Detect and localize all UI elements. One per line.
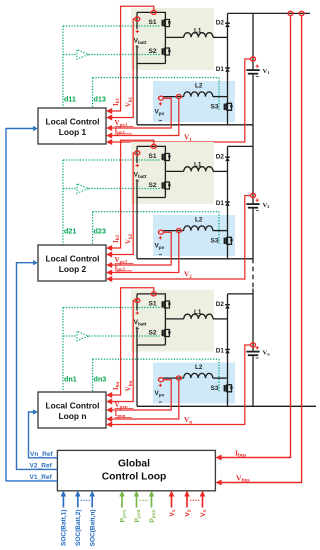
label Global Control Loop	[102, 458, 167, 482]
diode rail top wire (module 2)	[227, 146, 229, 157]
local control loop 1 box	[38, 108, 106, 144]
svg-text:d23: d23	[94, 227, 106, 236]
wire Vn_Ref (blue)	[29, 412, 58, 458]
transistor S2 (module 1)	[162, 44, 171, 60]
PV - mark	[159, 120, 162, 122]
ellipsis dots between SOC inputs	[81, 499, 91, 501]
capacitor + mark	[256, 346, 259, 349]
transistor S3 (module n)	[224, 380, 233, 396]
wire Vpvn sense (red)	[110, 380, 172, 410]
module n bus link wire	[228, 289, 254, 294]
arrow Vn into box	[106, 422, 112, 428]
battery source V<sub>batt</sub> rail (module 1)	[137, 12, 165, 63]
arrow Vb2 into box	[106, 252, 112, 258]
bus voltage sense terminal	[299, 11, 304, 15]
wire S3 source to bottom rail	[227, 396, 229, 406]
svg-text:Vbn: Vbn	[124, 380, 133, 391]
capacitor rail lower wire (module 2)	[252, 209, 254, 259]
label d23	[94, 227, 106, 236]
wire V2_Ref (blue)	[17, 263, 58, 470]
gate signal d21 wire to S1 (module 2)	[63, 160, 161, 245]
svg-text:dn1: dn1	[64, 375, 77, 384]
wire D1 to S3 drain	[227, 353, 229, 380]
svg-text:L1: L1	[194, 309, 202, 316]
svg-text:Vbus: Vbus	[236, 473, 250, 483]
svg-text:L2: L2	[195, 83, 203, 90]
capacitor rail upper wire (module 1)	[252, 13, 254, 69]
label Vbn	[124, 380, 133, 391]
diode D2 (module 1)	[225, 23, 230, 27]
capacitor rail upper wire (module 2)	[252, 146, 254, 203]
svg-text:Ppvn: Ppvn	[149, 509, 157, 522]
label S3	[211, 238, 219, 245]
wire D1 to S3 drain	[227, 72, 229, 99]
label Ib2	[112, 234, 121, 243]
arrow Ppvn into global box	[149, 491, 155, 497]
svg-text:Vn: Vn	[200, 510, 208, 517]
svg-text:V1: V1	[263, 68, 270, 75]
gate signal wire to S2 via driver (module 1)	[63, 54, 161, 56]
svg-text:S3: S3	[211, 238, 219, 245]
label SOC(Batt,n)	[90, 510, 97, 547]
svg-text:D1: D1	[216, 348, 225, 355]
label V1_Ref	[30, 474, 53, 481]
PV + mark	[159, 102, 162, 105]
label Local Control Loop 1	[46, 117, 100, 137]
PV + mark	[159, 236, 162, 239]
battery + mark	[136, 30, 139, 33]
wire L1 to diode rail	[213, 36, 228, 38]
wire S1 source to mid node	[164, 313, 166, 319]
arrow Ibus into global box	[215, 455, 221, 461]
wire V2 sense (red)	[110, 196, 251, 280]
wire D1 to S3 drain	[227, 206, 229, 233]
node battery-rail current tap (module 2)	[151, 144, 156, 148]
label Local Control Loop 2	[46, 254, 100, 274]
label Vn capacitor voltage	[263, 349, 271, 356]
capacitor - mark	[256, 210, 259, 212]
inductor L1 (module 1)	[184, 33, 213, 38]
label Vpv (module n)	[155, 390, 165, 397]
bus current sense terminal	[288, 11, 293, 15]
svg-text:D2: D2	[216, 154, 225, 161]
inverting driver triangle (module 1)	[77, 50, 89, 59]
svg-text:V2_Ref: V2_Ref	[30, 463, 53, 470]
transistor S1 (module 1)	[162, 15, 171, 31]
PV current tap node (module 2)	[176, 229, 181, 233]
label SOC(Batt,1)	[61, 510, 68, 546]
gate signal dn1 wire to S1 (module n)	[63, 308, 161, 393]
label Local Control Loop n	[46, 401, 100, 421]
arrow V2 into box	[106, 276, 112, 282]
wire S3 source to bottom rail	[227, 249, 229, 259]
arrow Vb1 into box	[106, 115, 112, 121]
svg-text:Ppv1: Ppv1	[119, 509, 127, 522]
svg-text:D1: D1	[216, 200, 225, 207]
battery converter shaded box (module n)	[131, 290, 214, 352]
label S3	[211, 104, 219, 111]
capacitor rail upper wire (module n)	[252, 294, 254, 351]
wire D2 to L1 node	[227, 27, 229, 68]
label dn3	[94, 375, 107, 384]
arrow Vpv2 into box	[106, 262, 112, 268]
battery + mark	[136, 164, 139, 167]
node battery + voltage tap (module 2)	[135, 151, 140, 155]
wire Vpv to L2	[164, 230, 184, 232]
svg-text:Vn_Ref: Vn_Ref	[30, 451, 54, 458]
wire S2 source to battery bottom	[164, 341, 166, 345]
wire Vb2 sense (red)	[110, 153, 135, 255]
arrow Ipv1 into box	[106, 133, 112, 139]
arrow Vpvn into box	[106, 407, 112, 413]
wire Ibn sense (red)	[110, 288, 154, 395]
local control loop n box	[38, 392, 106, 428]
capacitor C2 (module 2)	[246, 204, 259, 208]
label Vbatt (module n)	[134, 319, 147, 326]
label Vpvn	[115, 401, 134, 410]
label Vbatt (module 1)	[134, 37, 147, 44]
svg-text:Control Loop: Control Loop	[102, 471, 167, 482]
label d11	[64, 95, 76, 104]
transistor S1 (module 2)	[162, 149, 171, 165]
battery - mark	[136, 46, 139, 48]
label Vpv (module 1)	[155, 109, 165, 116]
svg-text:Ibus: Ibus	[235, 448, 246, 458]
inverting driver triangle (module 2)	[77, 184, 89, 193]
svg-text:Vn: Vn	[263, 349, 271, 356]
wire L1 to diode rail	[213, 318, 228, 320]
gate signal d23 wire to S3 (module 2)	[93, 212, 219, 245]
svg-text:SOC(Batt,2): SOC(Batt,2)	[75, 510, 82, 546]
PV source V<sub>pv</sub> terminal (module 2)	[159, 230, 164, 234]
local control loop 2 box	[38, 245, 106, 281]
node battery + voltage tap (module n)	[135, 299, 140, 303]
wire mid node to L1	[165, 318, 183, 320]
svg-text:V2: V2	[263, 202, 270, 209]
node battery-rail current tap (module n)	[151, 292, 156, 296]
diode D2 (module 2)	[225, 157, 230, 161]
capacitor Cn (module n)	[246, 352, 259, 356]
wire S1 source to mid node	[164, 31, 166, 37]
global control loop box	[57, 450, 215, 490]
arrow Vbus into global box	[215, 480, 221, 486]
capacitor rail lower wire (module 1)	[252, 75, 254, 125]
arrow Vbn into box	[106, 399, 112, 405]
label dn1	[64, 375, 77, 384]
svg-text:Vb2: Vb2	[124, 233, 133, 244]
svg-text:Loop n: Loop n	[59, 411, 87, 421]
gate signal dn3 wire to S3 (module n)	[93, 359, 219, 392]
wire Ppvn input (green)	[151, 496, 153, 508]
ellipsis dots between Ppv inputs	[140, 499, 149, 501]
ellipsis dots between V inputs	[190, 499, 200, 501]
transistor S3 (module 1)	[224, 99, 233, 115]
label D1	[216, 200, 225, 207]
wire S2 source to battery bottom	[164, 60, 166, 64]
svg-text:S1: S1	[149, 301, 157, 308]
inductor L1 (module n)	[184, 314, 213, 319]
battery top rail wire (module n)	[137, 294, 165, 297]
svg-text:d21: d21	[64, 227, 76, 236]
svg-text:D1: D1	[216, 66, 225, 73]
label Vn sense	[184, 416, 192, 425]
arrow V1 into box	[106, 139, 112, 145]
label S3	[211, 385, 219, 392]
wire S2 source to battery bottom	[164, 194, 166, 198]
battery converter shaded box (module 2)	[131, 142, 214, 204]
svg-text:S2: S2	[149, 182, 157, 189]
label D2	[216, 154, 225, 161]
wire SOC(Batt,n) input (blue)	[91, 496, 93, 508]
capacitor rail lower wire (module n)	[252, 356, 254, 406]
svg-text:Vpvn: Vpvn	[115, 401, 128, 410]
label V2 capacitor voltage	[263, 202, 270, 209]
label Ibus	[235, 448, 246, 458]
label Vbus	[236, 473, 250, 483]
label D1	[216, 348, 225, 355]
label Ipv2	[115, 263, 133, 272]
svg-text:D2: D2	[216, 20, 225, 27]
diode rail top wire (module n)	[227, 294, 229, 305]
capacitor + mark	[256, 199, 259, 202]
wire Ipv2 sense (red)	[110, 233, 179, 273]
label Ppvn	[149, 509, 157, 522]
label V1 sense	[184, 134, 192, 143]
inductor L2 (module n)	[184, 373, 213, 378]
label L2	[195, 217, 203, 224]
svg-text:d13: d13	[94, 95, 106, 104]
wire V1 sense (red)	[110, 59, 251, 142]
svg-text:SOC(Batt,n): SOC(Batt,n)	[90, 510, 97, 547]
battery top rail wire (module 2)	[137, 146, 165, 149]
label Vn bottom	[200, 510, 208, 517]
wire Vpv to L2	[164, 96, 184, 98]
arrow Ipv2 into box	[106, 270, 112, 276]
battery - mark	[136, 180, 139, 182]
label Vn_Ref	[30, 451, 54, 458]
label L1	[194, 309, 202, 316]
arrow Ib1 into box	[106, 108, 112, 114]
wire battery negative down-link (module 2)	[136, 198, 138, 259]
label Ppv1	[119, 509, 127, 522]
wire battery negative down-link (module n)	[136, 345, 138, 406]
wire mid node to S2 drain	[164, 171, 166, 177]
label S2	[149, 48, 157, 55]
svg-text:Ib1: Ib1	[112, 97, 121, 106]
wire V1_Ref (blue)	[6, 129, 57, 481]
arrow Ipvn into box	[106, 416, 112, 422]
label S1	[149, 153, 157, 160]
svg-text:S1: S1	[149, 19, 157, 26]
PV current tap node (module 1)	[176, 95, 181, 99]
diode rail top wire (module 1)	[227, 13, 229, 23]
inductor L2 (module 1)	[184, 92, 213, 97]
svg-text:V1: V1	[169, 509, 177, 516]
wire S1 source to mid node	[164, 165, 166, 171]
arrow Ppv1 into global box	[119, 491, 125, 497]
label L1	[194, 28, 202, 35]
label S2	[149, 182, 157, 189]
label S1	[149, 301, 157, 308]
label L2	[195, 364, 203, 371]
arrow Ib2 into box	[106, 245, 112, 251]
wire L1 to diode rail	[213, 170, 228, 172]
label Ib1	[112, 97, 121, 106]
label Vb2	[124, 233, 133, 244]
battery top rail wire (module 1)	[137, 12, 165, 15]
wire L2 to diode rail	[213, 377, 228, 379]
battery converter shaded box (module 1)	[131, 8, 214, 70]
label d13	[94, 95, 106, 104]
label V2_Ref	[30, 463, 53, 470]
wire mid node to L1	[165, 36, 183, 38]
diode D1 (module 2)	[225, 202, 230, 206]
arrow Ppv2 into global box	[134, 491, 140, 497]
label Vpv1	[115, 119, 134, 128]
node capacitor voltage tap (module 1)	[251, 57, 256, 61]
wire mid node to S2 drain	[164, 319, 166, 325]
PV source V<sub>pv</sub> terminal (module 1)	[159, 96, 164, 100]
label d21	[64, 227, 76, 236]
arrow SOC(Batt,1) into global box	[61, 491, 67, 497]
svg-text:V2: V2	[184, 509, 192, 516]
node battery + voltage tap (module 1)	[135, 17, 140, 21]
battery - mark	[136, 328, 139, 330]
wire SOC(Batt,1) input (blue)	[62, 496, 64, 508]
label S2	[149, 330, 157, 337]
label Ipv1	[115, 126, 133, 135]
gate signal d11 wire to S1 (module 1)	[63, 26, 161, 108]
svg-text:S1: S1	[149, 153, 157, 160]
PV - mark	[159, 254, 162, 256]
wire L2 to diode rail	[213, 230, 228, 232]
omitted-modules dashed wire	[252, 259, 254, 289]
svg-text:Loop 1: Loop 1	[59, 127, 87, 137]
svg-text:L2: L2	[195, 217, 203, 224]
inductor L2 (module 2)	[184, 226, 213, 231]
svg-text:V1_Ref: V1_Ref	[30, 474, 53, 481]
wire Ppv1 input (green)	[121, 496, 123, 508]
label Ibn	[112, 382, 121, 391]
svg-text:Vb1: Vb1	[124, 96, 133, 107]
node capacitor voltage tap (module n)	[251, 343, 256, 347]
diode D1 (module n)	[225, 350, 230, 354]
arrow Vn_Ref into local box n	[33, 409, 38, 414]
wire SOC(Batt,2) input (blue)	[77, 496, 79, 508]
svg-text:L1: L1	[194, 28, 202, 35]
wire D2 to L1 node	[227, 161, 229, 202]
inverting driver triangle (module n)	[77, 331, 89, 340]
PV converter shaded box (module 1)	[153, 81, 235, 122]
capacitor - mark	[256, 357, 259, 359]
label V1 capacitor voltage	[263, 68, 270, 75]
label Vbatt (module 2)	[134, 171, 147, 178]
arrow Vn into global box	[200, 491, 206, 497]
svg-text:d11: d11	[64, 95, 76, 104]
svg-text:SOC(Batt,1): SOC(Batt,1)	[61, 510, 68, 546]
label D2	[216, 20, 225, 27]
label SOC(Batt,2)	[75, 510, 82, 546]
wire Vn input (red)	[202, 496, 204, 508]
svg-text:V1: V1	[184, 134, 192, 143]
svg-text:S2: S2	[149, 330, 157, 337]
wire S3 source to bottom rail	[227, 115, 229, 125]
gate signal wire to S2 via driver (module n)	[63, 335, 161, 337]
wire Vbus sense (red)	[219, 16, 302, 483]
node capacitor voltage tap (module 2)	[251, 194, 256, 198]
capacitor - mark	[256, 76, 259, 78]
diode D2 (module n)	[225, 305, 230, 309]
wire mid node to S2 drain	[164, 37, 166, 43]
svg-text:Ipvn: Ipvn	[115, 410, 126, 419]
wire Ppv2 input (green)	[136, 496, 138, 508]
transistor S2 (module n)	[162, 325, 171, 341]
arrow Vpv1 into box	[106, 125, 112, 131]
label Vpv2	[115, 256, 134, 265]
label D1	[216, 66, 225, 73]
svg-text:L1: L1	[194, 162, 202, 169]
PV converter shaded box (module 2)	[153, 215, 235, 256]
svg-text:Global: Global	[118, 458, 150, 469]
label Vpv (module 2)	[155, 243, 165, 250]
label Ppv2	[134, 509, 142, 522]
svg-text:S3: S3	[211, 385, 219, 392]
transistor S1 (module n)	[162, 297, 171, 313]
transistor S2 (module 2)	[162, 178, 171, 194]
wire Ibus sense (red)	[219, 16, 291, 458]
series link wire module1-module2	[252, 125, 254, 147]
svg-text:Vn: Vn	[184, 416, 192, 425]
wire battery negative down-link (module 1)	[136, 64, 138, 125]
label Ipvn	[115, 410, 133, 419]
node battery-rail current tap (module 1)	[151, 10, 156, 14]
label S1	[149, 19, 157, 26]
svg-text:S3: S3	[211, 104, 219, 111]
wire Vn sense (red)	[110, 345, 251, 425]
arrow Ibn into box	[106, 392, 112, 398]
svg-text:D2: D2	[216, 301, 225, 308]
label L2	[195, 83, 203, 90]
module 2 bus link wire	[228, 145, 254, 147]
label Vb1	[124, 96, 133, 107]
PV converter shaded box (module n)	[153, 363, 235, 404]
diode D1 (module 1)	[225, 68, 230, 72]
svg-text:Local Control: Local Control	[46, 254, 100, 264]
label D2	[216, 301, 225, 308]
wire L2 to diode rail	[213, 96, 228, 98]
PV source V<sub>pv</sub> terminal (module n)	[159, 378, 164, 382]
label V1 bottom	[169, 509, 177, 516]
DC bus top wire	[228, 12, 311, 14]
PV current tap node (module n)	[176, 376, 181, 380]
svg-text:Ppv2: Ppv2	[134, 509, 142, 522]
arrow V1 into global box	[169, 491, 175, 497]
wire Ib1 sense (red)	[110, 6, 154, 111]
battery source V<sub>batt</sub> rail (module 2)	[137, 146, 165, 197]
label V2 bottom	[184, 509, 192, 516]
PV + mark	[159, 384, 162, 387]
wire Ipvn sense (red)	[110, 380, 179, 419]
transistor S3 (module 2)	[224, 233, 233, 249]
svg-text:V2: V2	[184, 271, 192, 280]
arrow SOC(Batt,n) into global box	[89, 491, 95, 497]
arrow V1_Ref into local box 1	[33, 126, 38, 131]
wire Vpv2 sense (red)	[110, 232, 172, 265]
capacitor C1 (module 1)	[246, 70, 259, 74]
wire Vbn sense (red)	[110, 301, 135, 402]
wire V1 input (red)	[171, 496, 173, 508]
wire V2 input (red)	[186, 496, 188, 508]
